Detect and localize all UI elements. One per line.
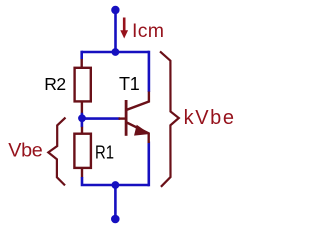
node bottom terminal — [111, 215, 120, 224]
svg-text:kVbe: kVbe — [184, 107, 236, 129]
label Icm — [132, 20, 164, 42]
wire right drop to collector — [148, 51, 151, 92]
brace Vbe — [48, 118, 65, 186]
transistor T1 — [119, 92, 149, 144]
current arrow Icm — [120, 18, 128, 39]
wire bottom vertical — [114, 185, 117, 219]
resistor R2 — [75, 59, 91, 113]
wire top horizontal — [82, 51, 149, 54]
node top junction — [112, 48, 120, 56]
label T1 — [119, 74, 140, 94]
wire R1 bottom to rail — [82, 177, 149, 185]
label R1 — [95, 143, 114, 163]
node bottom junction — [112, 181, 120, 189]
wire left drop to R2 — [80, 51, 83, 60]
node base junction — [78, 114, 86, 122]
svg-text:T1: T1 — [119, 74, 140, 94]
svg-text:R2: R2 — [44, 74, 65, 94]
wire base horizontal — [82, 117, 120, 120]
label kVbe — [184, 107, 236, 129]
svg-text:Icm: Icm — [132, 20, 164, 42]
wire top vertical — [114, 10, 117, 52]
brace kVbe — [160, 51, 179, 186]
wire emitter vertical — [148, 142, 151, 187]
svg-text:Vbe: Vbe — [8, 140, 43, 162]
resistor R1 — [74, 127, 91, 178]
svg-text:R1: R1 — [95, 143, 114, 163]
label Vbe — [8, 140, 43, 162]
label R2 — [44, 74, 65, 94]
node top terminal — [111, 6, 119, 14]
wire R2 to base junction — [81, 113, 84, 127]
